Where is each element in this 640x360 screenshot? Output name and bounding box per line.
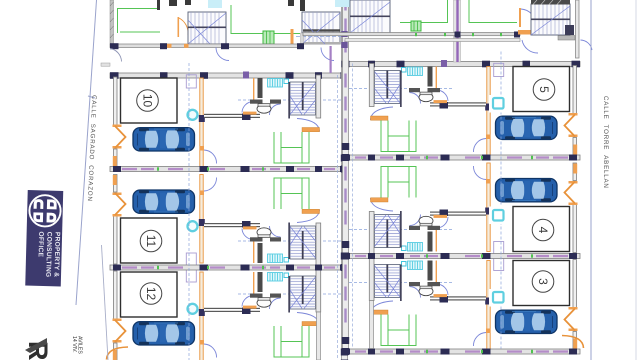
green divider line center room bbox=[231, 5, 300, 34]
orange jamb left of stair2 bbox=[291, 29, 294, 45]
svg-text:5: 5 bbox=[537, 86, 551, 93]
street line left bbox=[76, 0, 97, 305]
entrance step left bbox=[101, 63, 110, 66]
stair2 bbox=[302, 12, 340, 44]
right half mirrored bbox=[342, 0, 584, 355]
street tick bbox=[88, 96, 95, 98]
svg-text:CALLE TORRE ABELLAN: CALLE TORRE ABELLAN bbox=[602, 96, 609, 189]
hatched band above stair4 bbox=[531, 0, 570, 5]
cyan square fixtures right garage bbox=[489, 95, 506, 307]
svg-text:OFFICE: OFFICE bbox=[37, 231, 45, 257]
porch arcs left bbox=[110, 49, 122, 62]
svg-text:11: 11 bbox=[144, 235, 158, 248]
left exterior hatched wall bbox=[110, 0, 114, 44]
wall bottom left section bbox=[110, 44, 303, 48]
street line right bbox=[590, 0, 592, 360]
promoter text bbox=[71, 336, 83, 354]
svg-text:CONSULTING: CONSULTING bbox=[44, 232, 52, 278]
dark cap right bbox=[565, 25, 574, 35]
secondary wall right bbox=[345, 39, 520, 42]
orange entrance door right bbox=[519, 8, 521, 27]
R logo bbox=[23, 338, 53, 360]
stair1 bbox=[188, 12, 226, 44]
purple squares central wall top bbox=[341, 31, 347, 37]
svg-text:PROPERTY &: PROPERTY & bbox=[52, 232, 60, 278]
axis dash line top units bbox=[296, 36, 341, 38]
svg-text:AVILES: AVILES bbox=[77, 336, 83, 354]
stair4 bbox=[531, 4, 570, 35]
svg-text:12: 12 bbox=[144, 287, 158, 301]
green kitchen box bbox=[263, 31, 274, 44]
svg-text:3: 3 bbox=[536, 278, 550, 285]
left half bbox=[107, 0, 349, 360]
svg-text:4: 4 bbox=[536, 227, 550, 234]
street line far right faint bbox=[635, 0, 637, 360]
number 10 bbox=[137, 79, 555, 305]
logo text bbox=[36, 231, 61, 277]
orange door + arc left of stair1 bbox=[178, 17, 180, 37]
logo box navy bbox=[25, 190, 63, 286]
entrance arc outside right bbox=[581, 40, 593, 50]
street curb bottom left bbox=[102, 245, 109, 360]
hatched cap right bbox=[558, 36, 575, 41]
right exterior wall bbox=[576, 0, 580, 58]
riser wall band bbox=[454, 0, 461, 62]
connector wall x303 bbox=[301, 33, 304, 46]
porch door arc right bbox=[522, 40, 538, 53]
logo emblem bbox=[29, 195, 61, 227]
svg-text:10: 10 bbox=[140, 94, 154, 108]
green kitchen box right bbox=[411, 21, 421, 31]
purple riser left section bbox=[330, 46, 332, 73]
door jambs on wall left bbox=[167, 44, 172, 48]
wall stubs top bbox=[157, 0, 160, 10]
green floor outlines right rooms bbox=[400, 0, 517, 23]
purple riser line bbox=[456, 0, 458, 62]
wall bottom right section bbox=[303, 33, 520, 36]
stair3 bbox=[350, 0, 390, 33]
green floor outline left room bbox=[118, 9, 161, 34]
svg-text:14 VIV.: 14 VIV. bbox=[71, 336, 77, 353]
cyan canopy patches bbox=[208, 0, 222, 8]
